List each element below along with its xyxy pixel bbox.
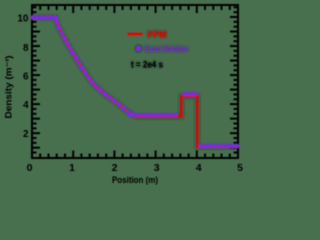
legend exact solution marker — [136, 46, 141, 51]
exact solution markers — [31, 15, 239, 148]
svg-text:6: 6 — [23, 72, 29, 83]
svg-text:2: 2 — [112, 162, 118, 174]
svg-text:5: 5 — [237, 162, 243, 174]
svg-text:t = 2e4 s: t = 2e4 s — [131, 60, 163, 70]
legend PPM line sample — [128, 33, 143, 36]
svg-text:Exact Solution: Exact Solution — [145, 44, 188, 54]
tick marks — [33, 6, 237, 158]
svg-text:4: 4 — [23, 100, 29, 111]
svg-text:8: 8 — [23, 43, 29, 54]
svg-text:3: 3 — [154, 162, 160, 174]
axes frame — [32, 5, 238, 158]
svg-text:10: 10 — [17, 13, 29, 24]
svg-text:PPM: PPM — [148, 30, 167, 41]
curve halo — [32, 18, 238, 147]
svg-text:0: 0 — [27, 162, 33, 174]
legend dot halo — [135, 45, 141, 51]
svg-text:Density (m⁻³): Density (m⁻³) — [4, 55, 14, 118]
svg-text:2: 2 — [23, 129, 29, 140]
svg-text:1: 1 — [69, 162, 75, 174]
plot background — [0, 0, 247, 185]
red PPM curve — [32, 18, 238, 147]
svg-text:4: 4 — [196, 162, 202, 174]
svg-text:Position (m): Position (m) — [112, 175, 158, 185]
legend line halo — [128, 33, 143, 36]
